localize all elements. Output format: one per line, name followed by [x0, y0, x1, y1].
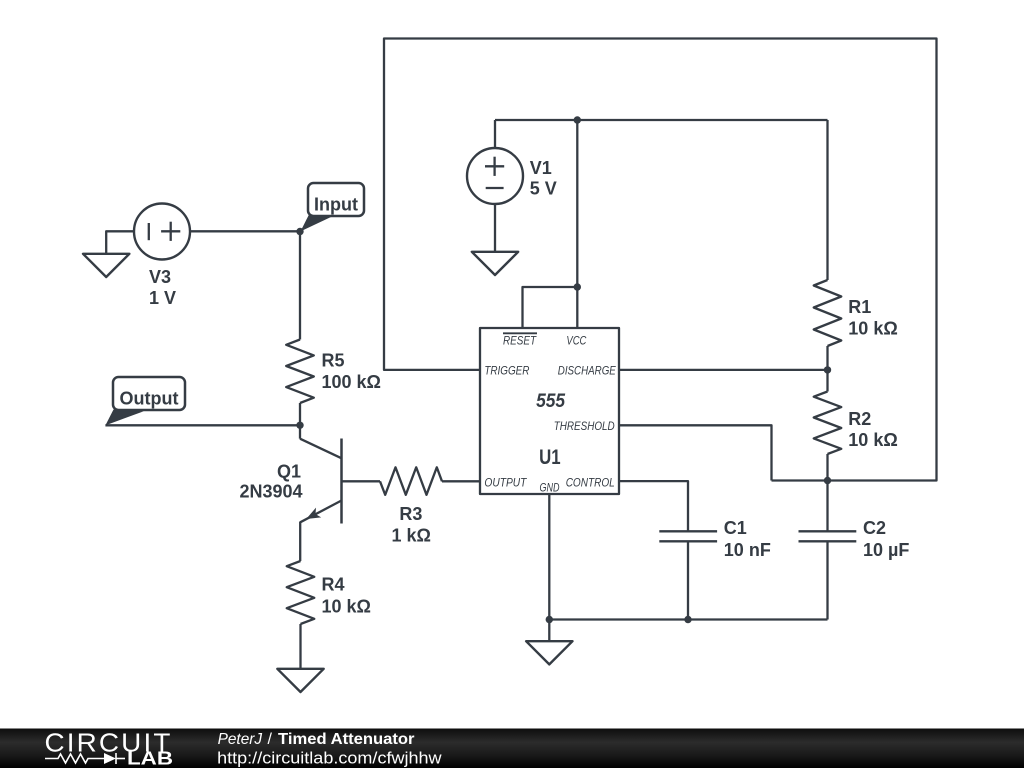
svg-text:DISCHARGE: DISCHARGE [558, 363, 617, 377]
wire C2 top [826, 481, 828, 532]
svg-text:Input: Input [314, 195, 358, 215]
label V1 5 V [530, 158, 557, 199]
svg-text:Output: Output [120, 389, 179, 409]
wire V1 bottom to ground [494, 204, 496, 252]
wire bottom rail [549, 618, 827, 620]
svg-text:PeterJ: PeterJ [218, 731, 263, 748]
svg-text:/: / [268, 731, 273, 748]
svg-text:U1: U1 [539, 446, 561, 469]
svg-text:THRESHOLD: THRESHOLD [554, 419, 615, 433]
svg-text:LAB: LAB [127, 749, 173, 768]
ground (V3) [83, 254, 129, 277]
wire to ground symbol [548, 620, 550, 642]
svg-text:10 kΩ: 10 kΩ [322, 597, 371, 617]
wire rail down to 555 [576, 120, 578, 287]
resistor R2 [814, 392, 842, 455]
ground (GND pin) [526, 641, 572, 664]
wire RESET jog [523, 287, 578, 328]
wire R5 to collector node [299, 403, 301, 425]
svg-text:10 nF: 10 nF [724, 540, 771, 560]
svg-text:R2: R2 [848, 409, 871, 429]
svg-text:2N3904: 2N3904 [240, 481, 303, 501]
label R5 100 kOhm [322, 351, 381, 393]
wire Input node down to R5 [299, 232, 301, 340]
node VCC rail [574, 116, 581, 123]
wire GND pin down [548, 494, 550, 620]
wire V1 top to rail [494, 120, 496, 148]
wire C2 to bottom rail [826, 541, 828, 619]
svg-text:100 kΩ: 100 kΩ [322, 372, 381, 392]
wire emitter down to R4 [299, 522, 301, 561]
ground (V1) [472, 252, 518, 275]
resistor R3 [380, 467, 442, 495]
voltage source V3 [134, 204, 190, 260]
wire base to R3 [342, 480, 380, 482]
transistor Q1 2N3904 [300, 425, 342, 523]
wire V3 to Input node [190, 230, 300, 232]
op box wire: TRIGGER loop [384, 39, 937, 481]
svg-text:R3: R3 [399, 504, 422, 524]
resistor R5 [286, 340, 314, 404]
wire DISCHARGE to R1/R2 node [619, 369, 828, 371]
svg-text:555: 555 [536, 391, 565, 412]
wire C1 to bottom rail [687, 541, 689, 619]
svg-text:10 kΩ: 10 kΩ [848, 430, 897, 450]
svg-text:R4: R4 [322, 575, 345, 595]
voltage source V1 [467, 148, 523, 204]
node R1/R2 junction [824, 366, 831, 373]
label R1 10 kOhm [848, 297, 897, 339]
svg-text:C2: C2 [863, 518, 886, 538]
svg-text:RESET: RESET [503, 333, 537, 347]
svg-text:VCC: VCC [566, 333, 586, 347]
flag Output [105, 377, 185, 425]
svg-text:R1: R1 [848, 297, 871, 317]
label R4 10 kOhm [322, 575, 371, 617]
svg-text:10 µF: 10 µF [863, 540, 909, 560]
svg-text:R5: R5 [322, 351, 345, 371]
svg-text:V3: V3 [149, 267, 171, 287]
wire R1 to node [826, 346, 828, 392]
label Q1 2N3904 [240, 461, 303, 501]
op-amp U1 555 box [480, 328, 619, 494]
node GND junction [546, 616, 553, 623]
ground (R4) [277, 669, 323, 692]
svg-text:1 kΩ: 1 kΩ [392, 526, 431, 546]
svg-text:1 V: 1 V [149, 288, 176, 308]
wire THRESHOLD jog [619, 425, 772, 480]
wire top rail to R1 [495, 119, 828, 121]
label R2 10 kOhm [848, 409, 897, 450]
node C1 bottom junction [684, 616, 691, 623]
svg-text:V1: V1 [530, 158, 552, 178]
label R3 1 kOhm [392, 504, 431, 546]
label V3 1 V [149, 267, 176, 308]
wire R3 to OUTPUT pin [442, 480, 480, 482]
resistor R4 [287, 561, 315, 624]
svg-text:C1: C1 [724, 518, 747, 538]
wire V3 left to ground [106, 231, 134, 254]
svg-text:http://circuitlab.com/cfwjhhw: http://circuitlab.com/cfwjhhw [217, 749, 442, 768]
svg-text:10 kΩ: 10 kΩ [848, 318, 897, 338]
svg-text:TRIGGER: TRIGGER [484, 363, 529, 377]
node Input junction [296, 228, 303, 235]
node Output junction [296, 422, 303, 429]
node RESET/VCC tee [574, 283, 581, 290]
capacitor C2 [799, 531, 857, 541]
wire CONTROL to C1 [619, 481, 688, 531]
node R2/C2 junction [824, 477, 831, 484]
logo squiggle [45, 753, 125, 764]
svg-text:5 V: 5 V [530, 179, 557, 199]
footer bar [0, 727, 1024, 768]
wire R4 to ground [299, 624, 301, 669]
svg-text:OUTPUT: OUTPUT [484, 475, 527, 489]
wire VCC stub [576, 287, 578, 328]
capacitor C1 [659, 531, 717, 541]
svg-text:GND: GND [540, 480, 560, 494]
wire R2 to bottom node [826, 454, 828, 481]
wire Output to node [105, 424, 300, 426]
resistor R1 [814, 280, 842, 346]
flag Input [301, 183, 365, 231]
svg-text:CONTROL: CONTROL [566, 475, 615, 489]
svg-text:Q1: Q1 [277, 461, 301, 481]
overline RESET [503, 332, 537, 334]
label C2 10 uF [863, 518, 909, 560]
svg-text:Timed Attenuator: Timed Attenuator [278, 731, 415, 748]
label C1 10 nF [724, 518, 771, 560]
wire rail down to R1 [826, 120, 828, 280]
